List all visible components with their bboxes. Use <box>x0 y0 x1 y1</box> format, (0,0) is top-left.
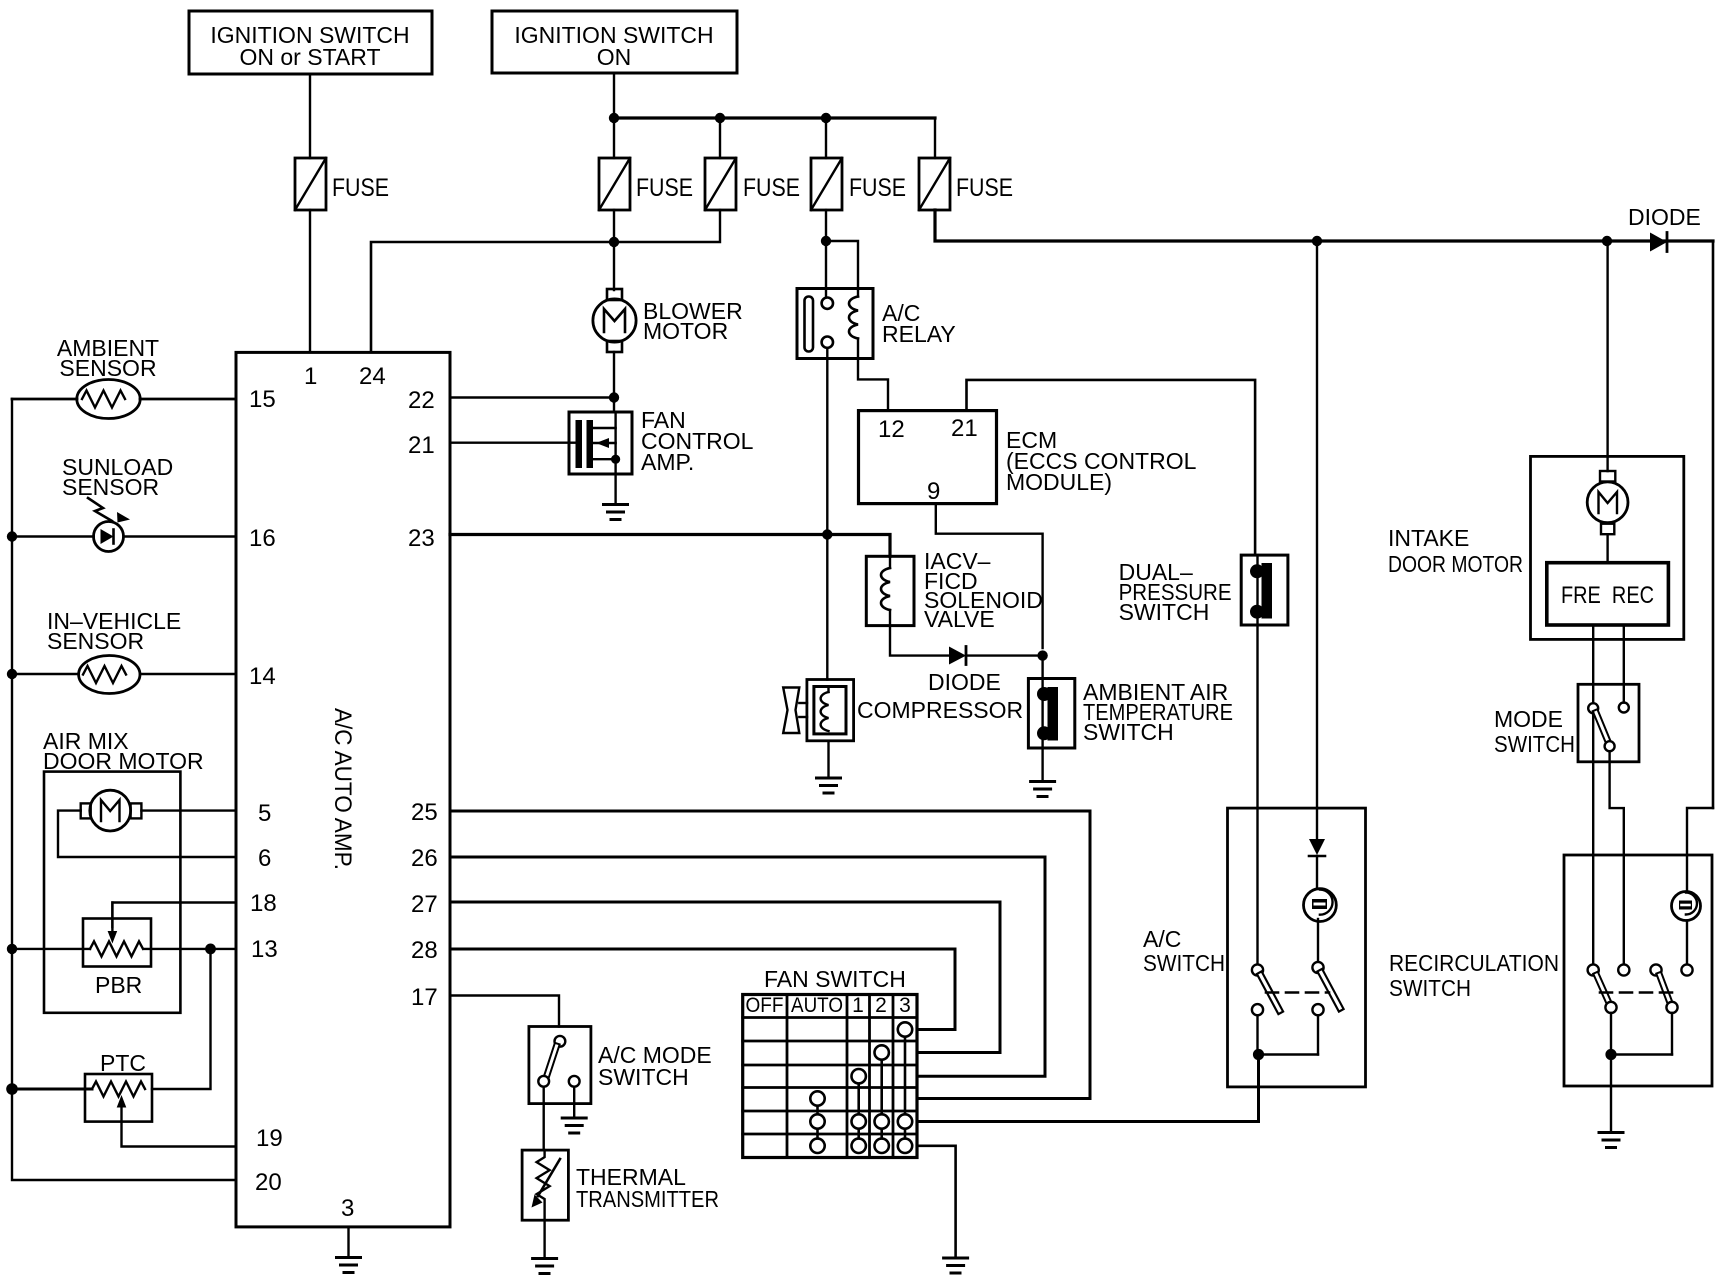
ECM box <box>859 411 1197 505</box>
wire blower to fan control amp <box>613 352 615 412</box>
svg-text:26: 26 <box>411 845 438 872</box>
node dot bus x1317 <box>1312 236 1322 246</box>
svg-text:21: 21 <box>951 415 978 442</box>
svg-text:ON or START: ON or START <box>240 44 381 70</box>
recirculation switch box <box>1389 855 1712 1086</box>
node dot bus-fuse2 <box>609 113 619 123</box>
svg-text:VALVE: VALVE <box>924 606 995 632</box>
svg-text:OFF: OFF <box>746 994 784 1017</box>
wire motor to FRE REC <box>1606 534 1608 563</box>
svg-text:22: 22 <box>408 387 435 414</box>
blower motor <box>593 289 743 352</box>
ground below fan switch <box>944 1258 968 1273</box>
svg-text:28: 28 <box>411 937 438 964</box>
ground below thermal transmitter <box>533 1220 557 1273</box>
svg-text:FUSE: FUSE <box>849 174 906 202</box>
svg-text:14: 14 <box>249 663 276 690</box>
node dot compressor tap <box>822 529 832 539</box>
wire ECM pin 21 to dual-pressure switch <box>967 380 1256 555</box>
svg-text:21: 21 <box>408 432 435 459</box>
svg-text:INTAKE: INTAKE <box>1388 525 1469 551</box>
sunload sensor <box>12 454 236 552</box>
diode D2 <box>928 647 1001 696</box>
in-vehicle sensor <box>12 608 236 694</box>
fuse F3 <box>705 158 800 210</box>
wire ignition2 down <box>613 73 615 118</box>
node dot rail ptc <box>6 1083 18 1095</box>
dashed link A/C switch <box>1266 991 1329 994</box>
wire relay coil to ECM pin 12 <box>858 359 888 411</box>
svg-text:SWITCH: SWITCH <box>1119 599 1210 625</box>
IGNITION SWITCH ON box <box>492 11 737 73</box>
svg-text:DIODE: DIODE <box>928 669 1001 695</box>
svg-text:27: 27 <box>411 891 438 918</box>
node dot fuse F4 relay <box>821 236 831 246</box>
compressor clutch coil <box>783 680 1023 741</box>
fan switch column 1 contacts <box>852 1069 866 1153</box>
node dot pin22 junction <box>609 392 619 402</box>
left rail wire <box>12 399 236 1180</box>
IGNITION SWITCH ON or START box <box>189 11 432 74</box>
fuse F4 <box>811 158 906 210</box>
wire pin13 tap down to PTC <box>152 949 211 1089</box>
wire motor to pin 5 <box>141 809 236 811</box>
svg-text:COMPRESSOR: COMPRESSOR <box>857 697 1023 723</box>
wire mode switch lever to recirc <box>1610 751 1624 964</box>
wire IACV to diode D2 <box>890 626 949 656</box>
svg-text:2: 2 <box>875 994 887 1017</box>
fan switch column 2 contacts <box>875 1045 889 1153</box>
svg-text:A/C AUTO AMP.: A/C AUTO AMP. <box>329 708 356 870</box>
svg-text:17: 17 <box>411 984 438 1011</box>
air mix motor M <box>81 790 142 831</box>
node dot diode junction <box>1037 650 1047 660</box>
PBR potentiometer <box>83 903 151 999</box>
recirc switch left pole <box>1588 964 1630 1013</box>
thermal transmitter <box>522 1150 719 1220</box>
wire relay contact down to pin23 line <box>826 348 828 535</box>
ground below fan control amp <box>604 474 628 520</box>
ground below ambient air temp switch <box>1031 748 1055 797</box>
wire F4 node to relay contact <box>825 241 827 297</box>
fan switch column 3 contacts <box>898 1022 912 1153</box>
node dot bus-fuse3 <box>715 113 725 123</box>
bus wire y118 <box>614 116 935 119</box>
wire fuse F4 down <box>825 210 827 241</box>
svg-text:FUSE: FUSE <box>332 174 389 202</box>
svg-text:SWITCH: SWITCH <box>598 1064 689 1090</box>
lamp L2 in recirc switch <box>1672 892 1701 921</box>
wire join left to pin 24 drop <box>371 242 614 352</box>
svg-text:RECIRCULATION: RECIRCULATION <box>1389 950 1559 976</box>
node dot F2-F3 join <box>609 237 619 247</box>
svg-text:SWITCH: SWITCH <box>1389 975 1471 1001</box>
wire diode D2 to junction <box>966 654 1043 656</box>
wire pin 25 to fan row4 <box>450 811 1090 1099</box>
svg-text:MODE: MODE <box>1494 706 1563 732</box>
svg-text:FUSE: FUSE <box>743 174 800 202</box>
wire pin 13 through PBR <box>12 948 236 950</box>
ground below compressor <box>817 741 841 793</box>
wire motor loop to pin 6 <box>58 811 236 857</box>
svg-text:FAN SWITCH: FAN SWITCH <box>764 966 906 992</box>
svg-text:SWITCH: SWITCH <box>1494 731 1575 757</box>
fan switch table <box>743 966 917 1158</box>
A/C auto amp box U2 <box>236 352 450 1227</box>
A/C relay K1 <box>797 289 956 359</box>
wire pin 22 <box>450 396 614 398</box>
wire ECM pin 9 to diode junction <box>936 504 1043 648</box>
svg-text:AMP.: AMP. <box>641 449 694 475</box>
fan control amp U1 <box>569 407 754 475</box>
svg-text:1: 1 <box>852 994 864 1017</box>
svg-text:RELAY: RELAY <box>882 321 956 347</box>
wire REC to mode switch contact <box>1623 625 1625 703</box>
svg-text:SWITCH: SWITCH <box>1143 950 1225 976</box>
svg-text:15: 15 <box>249 386 276 413</box>
recirc switch right pole <box>1650 964 1692 1013</box>
ground below recirc switch <box>1599 1133 1623 1148</box>
wire lamp to recirc right contact <box>1686 921 1688 965</box>
wire dual-pressure to A/C switch <box>1256 625 1258 965</box>
diode D1 top right <box>1628 204 1701 252</box>
svg-text:SENSOR: SENSOR <box>47 628 144 654</box>
svg-text:FUSE: FUSE <box>636 174 693 202</box>
wire ignition1 to fuse F1 <box>309 74 311 158</box>
wire fuse F3 down and left to join <box>614 210 720 242</box>
wire F4 node to relay coil <box>826 241 858 289</box>
svg-text:5: 5 <box>258 800 271 827</box>
diode D3 in A/C switch <box>1309 839 1325 888</box>
wire compressor feed <box>826 535 828 680</box>
svg-text:3: 3 <box>899 994 911 1017</box>
svg-text:DOOR MOTOR: DOOR MOTOR <box>43 748 204 774</box>
svg-text:16: 16 <box>249 525 276 552</box>
svg-text:PBR: PBR <box>95 972 142 998</box>
svg-text:23: 23 <box>408 525 435 552</box>
wire pin 28 to fan row1 <box>450 949 955 1030</box>
svg-text:18: 18 <box>250 890 277 917</box>
fuse F1 <box>295 158 389 210</box>
node dot A/C switch common <box>1253 1049 1264 1060</box>
node dot bus x1607 <box>1602 236 1612 246</box>
intake door motor box <box>1388 456 1684 639</box>
wire pin 23 line <box>450 535 890 557</box>
ambient air temperature switch <box>1028 679 1233 749</box>
wire pin 18 to PBR wiper <box>112 903 236 928</box>
svg-text:19: 19 <box>256 1125 283 1152</box>
air mix door motor box <box>43 728 204 1013</box>
svg-text:25: 25 <box>411 799 438 826</box>
wire bus to intake motor <box>1606 241 1608 471</box>
wire pin 26 to fan row3 <box>450 857 1045 1076</box>
svg-text:SWITCH: SWITCH <box>1083 719 1174 745</box>
svg-text:24: 24 <box>359 363 386 390</box>
wire recirc bottom link <box>1611 1013 1672 1055</box>
svg-text:A/C: A/C <box>1143 926 1181 952</box>
A/C switch left pole <box>1252 964 1280 1015</box>
ground below A/C mode switch <box>562 1087 586 1133</box>
wire bus to fuse F5 <box>934 118 936 158</box>
FRE REC box <box>1547 563 1669 625</box>
wire A/C switch bottom link <box>1258 1015 1319 1054</box>
IACV-FICD solenoid valve <box>866 548 1043 632</box>
A/C switch right pole <box>1312 962 1340 1015</box>
wire mode switch common down to recirc <box>1592 713 1594 964</box>
PTC resistor <box>12 1050 152 1122</box>
svg-text:FRE REC: FRE REC <box>1561 582 1654 609</box>
wire junction to ambient air temp switch <box>1041 656 1043 679</box>
node dot pin13 tap <box>205 944 216 955</box>
svg-text:MOTOR: MOTOR <box>643 318 728 344</box>
svg-text:FUSE: FUSE <box>956 174 1013 202</box>
wire bus to fuse F2 <box>613 118 615 158</box>
svg-text:20: 20 <box>255 1169 282 1196</box>
wire right edge into recirc lamp <box>1687 808 1713 891</box>
wire fan row6 to ground <box>917 1146 956 1258</box>
svg-text:DIODE: DIODE <box>1628 204 1701 230</box>
node dot rail pbr <box>7 944 17 954</box>
svg-text:DOOR MOTOR: DOOR MOTOR <box>1388 551 1523 577</box>
wire fuse F2 down to blower node <box>613 210 615 290</box>
fan switch AUTO contacts <box>810 1091 824 1153</box>
wire bus to fuse F4 <box>825 118 827 158</box>
svg-text:3: 3 <box>341 1195 354 1222</box>
A/C switch box <box>1143 808 1366 1087</box>
wire FRE to mode switch contact <box>1592 625 1594 703</box>
svg-text:6: 6 <box>258 845 271 872</box>
wire lamp to right contact <box>1317 919 1319 962</box>
wire PTC wiper to pin 19 <box>122 1122 237 1147</box>
wire pin 21 to fan control amp gate <box>450 442 569 444</box>
lamp L1 in A/C switch <box>1304 889 1337 922</box>
wire pin 17 to A/C mode switch <box>450 996 559 1027</box>
fuse F2 <box>599 158 693 210</box>
svg-text:ON: ON <box>597 44 632 70</box>
wire fan row5 to A/C switch <box>917 1055 1259 1122</box>
intake motor M <box>1587 471 1628 534</box>
mode switch <box>1494 684 1639 762</box>
svg-text:AUTO: AUTO <box>791 994 843 1017</box>
svg-text:SENSOR: SENSOR <box>62 474 159 500</box>
A/C mode switch <box>529 1027 712 1104</box>
main bus wire y241 from fuse F5 to right edge <box>935 210 1713 241</box>
svg-text:TRANSMITTER: TRANSMITTER <box>576 1186 719 1212</box>
ambient sensor <box>12 335 236 419</box>
wire bus to fuse F3 <box>719 118 721 158</box>
wire right edge down <box>1712 241 1715 808</box>
svg-text:9: 9 <box>927 478 940 505</box>
node dot bus-fuse4 <box>821 113 831 123</box>
wire fuse F1 to pin 1 <box>309 210 311 352</box>
svg-text:SENSOR: SENSOR <box>59 355 156 381</box>
svg-text:13: 13 <box>251 936 278 963</box>
wire bus to A/C switch lamp branch <box>1316 241 1318 838</box>
svg-text:12: 12 <box>878 416 905 443</box>
node dot rail sunload <box>7 531 17 541</box>
wire pin 27 to fan row2 <box>450 902 1000 1053</box>
fuse F5 <box>919 158 1013 210</box>
svg-text:PTC: PTC <box>100 1050 146 1076</box>
dashed link recirc switch <box>1600 991 1680 994</box>
wire recirc common to ground <box>1610 1055 1612 1133</box>
svg-text:1: 1 <box>304 363 317 390</box>
wire A/C mode switch to thermal transmitter <box>543 1087 545 1150</box>
dual-pressure switch <box>1119 555 1288 625</box>
node dot recirc common <box>1605 1049 1616 1060</box>
svg-text:MODULE): MODULE) <box>1006 469 1112 495</box>
ground below pin 3 <box>337 1227 361 1273</box>
node dot rail in-vehicle <box>7 669 17 679</box>
